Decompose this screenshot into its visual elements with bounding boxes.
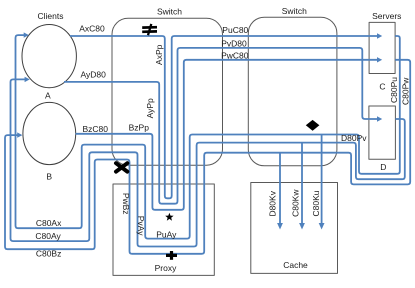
svg-text:AyD80: AyD80 xyxy=(81,70,107,80)
svg-text:C80Pu: C80Pu xyxy=(389,77,399,103)
client B ellipse xyxy=(23,102,76,164)
wire D80Pv reply: D right side down around, back left into proxy U5, arch to middle bottom U, into A port y xyxy=(11,79,405,246)
wire D80Kv branch to cache xyxy=(279,153,281,225)
svg-text:PuC80: PuC80 xyxy=(222,25,248,35)
proxy box xyxy=(113,184,214,275)
svg-text:Cache: Cache xyxy=(283,260,308,270)
svg-text:BzC80: BzC80 xyxy=(82,124,108,134)
svg-text:BzPp: BzPp xyxy=(129,123,150,133)
svg-text:C80Pw: C80Pw xyxy=(401,77,411,105)
server D box xyxy=(369,106,396,159)
arrowhead into C (PuC80) xyxy=(377,33,382,38)
svg-text:C80Ax: C80Ax xyxy=(36,218,62,228)
arrowhead into D (PvD80) xyxy=(377,116,382,121)
switch 1 container xyxy=(112,18,223,165)
svg-text:PuAy: PuAy xyxy=(156,229,177,239)
svg-text:A: A xyxy=(45,90,51,100)
svg-text:D80Kv: D80Kv xyxy=(267,190,277,216)
svg-text:PvD80: PvD80 xyxy=(221,39,247,49)
wire C80Kw branch to cache xyxy=(301,143,303,225)
arrowhead into C (PwC80) xyxy=(377,57,382,62)
arrowhead into A (C80Ay) xyxy=(25,77,30,82)
X symbol at switch1 bottom boundary xyxy=(116,163,127,171)
svg-text:Clients: Clients xyxy=(38,11,64,21)
svg-text:AyPp: AyPp xyxy=(145,98,155,118)
arrowhead into B (C80Bz) xyxy=(17,132,22,137)
arrowhead into cache (C80Kw) xyxy=(299,223,305,230)
wire AxC80 request: A to switch1 down into proxy U1 up and to server C xyxy=(70,36,378,198)
svg-text:D80Pv: D80Pv xyxy=(341,133,367,143)
svg-text:Switch: Switch xyxy=(157,7,182,17)
star symbol in proxy xyxy=(165,213,173,221)
wire BzC80 request: B to switch1 down into proxy U3 up and to server C xyxy=(76,60,379,210)
svg-text:PwBz: PwBz xyxy=(121,193,131,215)
cache box xyxy=(251,183,338,274)
svg-text:AxPp: AxPp xyxy=(154,44,164,65)
svg-text:C80Ku: C80Ku xyxy=(311,190,321,216)
svg-text:Proxy: Proxy xyxy=(155,263,177,273)
svg-text:C80Ay: C80Ay xyxy=(35,231,61,241)
arrowhead into A (C80Ax) xyxy=(24,32,29,37)
switch 2 container xyxy=(248,17,337,166)
svg-text:AxC80: AxC80 xyxy=(79,24,105,34)
plus symbol on proxy outer U xyxy=(166,251,177,260)
wire C80Pw reply: C right side down around D, back left into proxy U6, arch to outer bottom U, into B port z xyxy=(5,60,410,254)
svg-text:Servers: Servers xyxy=(372,11,401,21)
svg-text:Switch: Switch xyxy=(282,6,307,16)
wire AyD80 request: A to switch1 down into proxy U2 up and to server D xyxy=(64,48,378,204)
server C box xyxy=(369,22,395,73)
svg-text:PvAy: PvAy xyxy=(136,216,146,236)
svg-text:C80Kw: C80Kw xyxy=(290,189,300,217)
svg-text:PwC80: PwC80 xyxy=(221,50,249,60)
arrowhead into cache (C80Ku) xyxy=(319,223,325,230)
client A ellipse xyxy=(22,24,76,87)
svg-text:D: D xyxy=(380,162,386,172)
svg-text:C: C xyxy=(379,82,385,92)
svg-text:B: B xyxy=(46,172,52,182)
diamond symbol in switch 2 xyxy=(306,120,320,131)
arrowhead into cache (D80Kv) xyxy=(277,223,283,230)
svg-text:C80Bz: C80Bz xyxy=(36,249,62,259)
wire C80Ku branch to cache xyxy=(321,135,323,225)
wire C80Pu reply: C right side down around D, back left through switches into proxy U4, arch to bottom U, into A port x xyxy=(16,35,400,239)
not-equal symbol on AxC80 line xyxy=(142,24,157,35)
